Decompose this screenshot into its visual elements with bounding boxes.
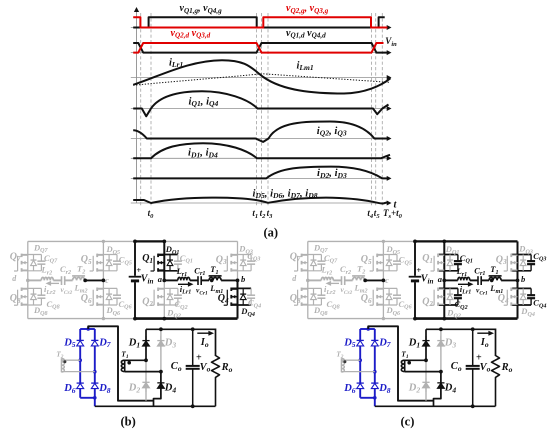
transistor Q5 MOSFET xyxy=(97,254,103,256)
switch Q3 position MOSFET xyxy=(231,254,237,256)
transformer T2 secondary coil xyxy=(60,358,62,372)
diode D5 xyxy=(79,336,81,349)
wire T to node xyxy=(221,279,237,281)
wire Cr to T xyxy=(65,279,73,281)
switch Q3 position connection bars xyxy=(231,254,251,256)
switch Q2 position leg wire xyxy=(443,280,445,318)
node a xyxy=(442,279,446,283)
switch Q3 position connection bars xyxy=(511,254,531,256)
inductor Lr coil xyxy=(178,277,190,280)
center bridge left column lower (D2) gray xyxy=(145,360,147,400)
transistor Q6 connection bars xyxy=(377,287,397,289)
wire Lr to Cr xyxy=(333,279,341,281)
resistor Ro xyxy=(212,356,220,407)
svg-text:a: a xyxy=(438,274,443,284)
transistor Q7 connection bars xyxy=(301,254,321,256)
transistor Q5 snubber capacitor xyxy=(116,255,118,262)
time labels t0 t1 t2 t3 t4 t5 Ts+t0 xyxy=(148,208,403,220)
output top rail xyxy=(146,329,216,356)
diode D8 xyxy=(374,379,376,392)
time grid dashed lines xyxy=(141,13,383,207)
wire T to node xyxy=(501,279,517,281)
T1 secondary wires xyxy=(405,359,426,361)
gray bridge top rail xyxy=(28,240,135,242)
transformer T primary coil xyxy=(73,277,85,280)
current arrow iLr2 (left) xyxy=(50,282,59,284)
wire blue bridge to center vertical xyxy=(88,326,153,400)
gray bridge bottom rail xyxy=(28,318,135,320)
transistor Q6 body diode xyxy=(388,288,390,305)
diode D2 gray xyxy=(425,378,427,392)
T1 secondary wires xyxy=(125,359,146,361)
diode D2 gray xyxy=(145,378,147,392)
wire Lr to Cr xyxy=(53,279,61,281)
transistor Q5 leg wire xyxy=(382,241,384,280)
transformer T2 secondary coil xyxy=(340,358,342,372)
diode D6 xyxy=(359,379,361,392)
svg-text:b: b xyxy=(241,274,245,284)
circuit (b) secondary rectifier xyxy=(56,326,232,428)
switch Q2 position body diode xyxy=(449,288,451,305)
diode D4 xyxy=(160,376,162,395)
transistor Q7 snubber capacitor xyxy=(320,255,322,262)
switch Q4 position MOSFET xyxy=(511,288,517,290)
transistor Q6 snubber capacitor xyxy=(116,288,118,295)
transformer T1 secondary coil xyxy=(124,360,126,372)
switch Q4 position leg wire xyxy=(517,280,519,318)
capacitor Cr xyxy=(477,276,479,285)
wire Cr to T xyxy=(345,279,353,281)
switch Q2 position MOSFET xyxy=(438,288,444,290)
switch Q3 position MOSFET xyxy=(511,254,517,256)
switch Q4 position MOSFET xyxy=(231,288,237,290)
output current arrow Io xyxy=(197,332,210,334)
transistor Q6 MOSFET xyxy=(97,288,103,290)
switch Q4 position snubber capacitor xyxy=(250,288,252,295)
wire node to Lr xyxy=(164,279,178,281)
diode D5 xyxy=(359,336,361,349)
transistor Q6 leg wire xyxy=(102,280,104,318)
waveform iQ1 iQ4 xyxy=(133,91,388,116)
transistor Q8 MOSFET xyxy=(22,288,28,290)
circuit (c) primary bridge xyxy=(290,240,547,321)
transistor Q7 leg wire xyxy=(27,241,29,280)
transistor Q6 connection bars xyxy=(97,287,117,289)
output bottom rail xyxy=(95,405,216,407)
blue rectifier bridge xyxy=(360,329,375,406)
waveform iD2 iD3 xyxy=(133,167,388,179)
transistor Q8 body diode xyxy=(313,288,315,305)
center bridge left column upper (D1) xyxy=(425,329,427,360)
junction dots center bridge xyxy=(144,358,148,362)
transistor Q6 body diode xyxy=(108,288,110,305)
wire T to node xyxy=(85,279,104,281)
transistor Q7 body diode xyxy=(33,255,35,271)
inductor Lr coil xyxy=(458,277,470,280)
wire T to node xyxy=(365,279,384,281)
diode D1 xyxy=(425,336,427,350)
center bridge right column lower (D4) xyxy=(434,372,441,407)
switch Q4 position snubber capacitor xyxy=(530,288,532,295)
switch Q4 position leg wire xyxy=(237,280,239,318)
switch Q1 position leg wire xyxy=(443,241,445,280)
switch Q2 position snubber capacitor xyxy=(457,288,459,295)
node d xyxy=(26,279,30,283)
transistor Q7 snubber capacitor xyxy=(40,255,42,262)
rail junction dots xyxy=(133,240,137,244)
switch Q4 position body diode xyxy=(522,288,524,305)
svg-text:b: b xyxy=(521,274,525,284)
active bridge top rail xyxy=(135,240,164,242)
switch Q1 position body diode xyxy=(449,255,451,271)
switch Q2 position body diode xyxy=(169,288,171,305)
switch Q1 position leg wire xyxy=(163,241,165,280)
diode D6 xyxy=(79,379,81,392)
wire Lr to Cr xyxy=(470,279,478,281)
transistor Q8 leg wire xyxy=(307,280,309,318)
waveform panel axes xyxy=(131,7,392,206)
node a xyxy=(162,279,166,283)
node c xyxy=(102,279,106,283)
node d xyxy=(306,279,310,283)
transistor Q5 body diode xyxy=(108,255,110,271)
switch Q2 position snubber capacitor xyxy=(177,288,179,295)
circuit (b) primary bridge xyxy=(10,240,261,321)
current arrow iLr1 (right) xyxy=(178,283,189,285)
capacitor Cr xyxy=(61,276,63,285)
active bridge top rail xyxy=(415,240,444,242)
diode D4 xyxy=(440,376,442,395)
transformer T primary coil xyxy=(353,277,365,280)
transistor Q6 leg wire xyxy=(382,280,384,318)
output top rail xyxy=(426,329,496,356)
capacitor Cr xyxy=(197,276,199,285)
rail junction dots xyxy=(413,240,417,244)
diode D1 xyxy=(145,336,147,350)
voltage source Vin xyxy=(414,241,416,275)
waveform iLr1 resonant current xyxy=(133,60,390,93)
transistor Q8 MOSFET xyxy=(302,288,308,290)
transistor Q5 connection bars xyxy=(97,254,117,256)
wire Cr to T xyxy=(201,279,209,281)
wire node to Lr xyxy=(444,279,458,281)
transistor Q5 body diode xyxy=(388,255,390,271)
transformer T primary coil xyxy=(209,277,221,280)
switch Q1 position MOSFET xyxy=(438,254,444,256)
active bridge bottom rail xyxy=(415,317,518,320)
current arrow iLr2 (left) xyxy=(330,282,339,284)
voltage source Vin xyxy=(134,241,136,275)
capacitor Co xyxy=(472,329,474,365)
transistor Q5 leg wire xyxy=(102,241,104,280)
transistor Q8 connection bars xyxy=(301,287,321,289)
waveform vQ1g vQ4g (black gate) xyxy=(133,17,385,27)
waveform vQ2g vQ3g (red gate) xyxy=(133,17,387,27)
wire Lr to Cr xyxy=(190,279,198,281)
transistor Q8 snubber capacitor xyxy=(40,288,42,295)
transistor Q5 snubber capacitor xyxy=(396,255,398,262)
waveform vQ2d vQ3d (red drain) xyxy=(133,43,383,53)
blue junction dots xyxy=(366,327,370,331)
wire node to Lr xyxy=(308,279,322,281)
wire node to Lr xyxy=(28,279,42,281)
active bridge bottom rail xyxy=(135,317,238,320)
diode D7 xyxy=(374,336,376,349)
waveform iQ2 iQ3 xyxy=(133,122,388,142)
waveform iD5 iD6 iD7 iD8 xyxy=(133,198,388,204)
node b xyxy=(516,279,520,283)
diode D8 xyxy=(94,379,96,392)
transistor Q8 body diode xyxy=(33,288,35,305)
switch Q2 position leg wire xyxy=(163,280,165,318)
transistor Q8 leg wire xyxy=(27,280,29,318)
switch Q3 position leg wire xyxy=(517,241,519,280)
wire blue bridge to center vertical xyxy=(368,326,433,400)
diode D7 xyxy=(94,336,96,349)
transformer T1 secondary coil xyxy=(404,360,406,372)
switch Q1 position snubber capacitor xyxy=(457,255,459,262)
transistor Q5 connection bars xyxy=(377,254,397,256)
output bottom rail xyxy=(375,405,496,407)
junction dots center bridge xyxy=(424,358,428,362)
svg-text:a: a xyxy=(158,274,163,284)
node c xyxy=(382,279,386,283)
gray bridge top rail xyxy=(308,240,415,242)
switch Q2 position connection bars xyxy=(438,287,458,289)
inductor Lr coil xyxy=(321,277,333,280)
switch Q1 position connection bars xyxy=(438,254,458,256)
blue rectifier bridge xyxy=(80,329,95,406)
center bridge left column lower (D2) gray xyxy=(425,360,427,400)
wire Cr to T xyxy=(481,279,489,281)
switch Q4 position connection bars xyxy=(231,287,251,289)
transistor Q6 MOSFET xyxy=(377,288,383,290)
switch Q1 position connection bars xyxy=(158,254,178,256)
waveform iD1 iD4 xyxy=(133,143,390,158)
svg-text:(c): (c) xyxy=(401,414,415,428)
switch Q3 position body diode xyxy=(522,255,524,271)
current arrow iLr1 (right) xyxy=(458,283,469,285)
waveform vQ1d vQ4d (black drain) xyxy=(133,43,388,53)
gray rail junction dots xyxy=(102,240,105,243)
circuit (c) secondary rectifier xyxy=(336,326,512,428)
switch Q3 position body diode xyxy=(242,255,244,271)
switch Q3 position snubber capacitor xyxy=(530,255,532,262)
switch Q4 position body diode xyxy=(242,288,244,305)
gray bridge bottom rail xyxy=(308,318,415,320)
transistor Q6 snubber capacitor xyxy=(396,288,398,295)
switch Q1 position MOSFET xyxy=(158,254,164,256)
switch Q1 position body diode xyxy=(169,255,171,271)
capacitor Co xyxy=(192,329,194,365)
center bridge right column upper (D3) gray xyxy=(160,329,162,371)
transistor Q5 MOSFET xyxy=(377,254,383,256)
blue junction dots xyxy=(86,327,90,331)
transistor Q7 body diode xyxy=(313,255,315,271)
gray rail junction dots xyxy=(382,240,385,243)
transistor Q7 leg wire xyxy=(307,241,309,280)
switch Q3 position leg wire xyxy=(237,241,239,280)
resistor Ro xyxy=(492,356,500,407)
center bridge left column upper (D1) xyxy=(145,329,147,360)
svg-text:(b): (b) xyxy=(121,414,136,428)
node b xyxy=(236,279,240,283)
capacitor Cr xyxy=(341,276,343,285)
output current arrow Io xyxy=(477,332,490,334)
inductor Lr coil xyxy=(41,277,53,280)
transistor Q7 MOSFET xyxy=(22,254,28,256)
svg-text:(a): (a) xyxy=(264,226,279,240)
transistor Q8 connection bars xyxy=(21,287,41,289)
center bridge right column lower (D4) xyxy=(154,372,161,407)
switch Q3 position snubber capacitor xyxy=(250,255,252,262)
svg-text:c: c xyxy=(105,276,109,285)
transformer T primary coil xyxy=(489,277,501,280)
svg-text:c: c xyxy=(385,276,389,285)
diode D3 gray xyxy=(160,336,162,350)
center bridge right column upper (D3) gray xyxy=(440,329,442,371)
switch Q2 position MOSFET xyxy=(158,288,164,290)
transistor Q8 snubber capacitor xyxy=(320,288,322,295)
switch Q4 position connection bars xyxy=(511,287,531,289)
transistor Q7 connection bars xyxy=(21,254,41,256)
transistor Q7 MOSFET xyxy=(302,254,308,256)
diode D3 gray xyxy=(440,336,442,350)
switch Q2 position connection bars xyxy=(158,287,178,289)
waveform iLm1 magnetizing current dotted xyxy=(133,74,389,85)
switch Q1 position snubber capacitor xyxy=(177,255,179,262)
